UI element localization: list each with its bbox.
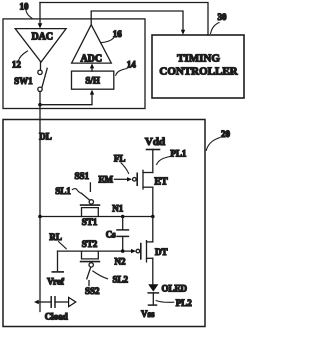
DAC U-DAC triangle [15,29,66,63]
arrowhead into S/H [90,90,94,95]
svg-text:Cs: Cs [106,229,116,239]
svg-text:14: 14 [127,59,137,69]
EM arrow into ET gate [115,178,128,180]
box A analog block [3,19,145,109]
svg-text:EM: EM [98,175,113,185]
wire DL to S/H [40,94,92,105]
switch SW1 [40,62,42,70]
svg-text:Vss: Vss [141,309,155,319]
svg-text:FL: FL [114,154,126,164]
Vss terminal bar [149,304,157,306]
svg-text:ST1: ST1 [82,217,98,227]
svg-text:PL1: PL1 [170,149,187,159]
Vref terminal [57,251,59,272]
leader FL [121,163,129,174]
svg-text:Vref: Vref [47,277,65,287]
svg-text:S/H: S/H [85,76,100,86]
svg-text:TIMING: TIMING [177,53,220,65]
wire DT to OLED [152,258,154,284]
wire top bus to timing controller [40,3,208,36]
wire ADC to timing controller [91,11,183,31]
wire DAC input drop [39,3,41,25]
wire DL vertical [39,92,41,312]
svg-text:10: 10 [20,1,30,11]
diode OLED [148,284,158,291]
wire ET to N1 [152,187,154,216]
svg-text:N1: N1 [112,204,123,214]
capacitor Cs [122,217,124,230]
svg-text:ADC: ADC [80,53,102,64]
node N2 Cs junction [121,249,125,253]
capacitor Cload [34,300,39,304]
svg-text:N2: N2 [115,257,126,267]
leader RL [59,242,67,249]
node N1 rail junction [151,215,155,219]
leader for 14 [116,69,127,76]
svg-text:ST2: ST2 [82,239,98,249]
svg-text:16: 16 [113,29,123,39]
svg-text:OLED: OLED [162,284,188,294]
svg-text:SS2: SS2 [85,286,100,296]
svg-text:CONTROLLER: CONTROLLER [159,65,238,77]
switch SS2 [89,263,93,267]
wire N2 row [58,250,132,252]
svg-text:PL2: PL2 [176,298,193,308]
svg-text:RL: RL [49,232,62,242]
timing controller box 30 [152,35,244,98]
svg-text:DL: DL [39,131,52,141]
leader for 10 [26,11,32,19]
transistor DT [131,249,136,253]
leader PL2 [156,301,174,303]
node junction DL/S-H [38,103,42,107]
svg-text:30: 30 [218,12,228,22]
svg-text:SL2: SL2 [113,275,129,285]
svg-text:ET: ET [154,176,168,187]
leader for 16 [101,38,114,43]
ADC U16 triangle [72,25,112,63]
arrow S/H to ADC [91,67,93,71]
leader PL1 [157,157,170,165]
leader SL1 [72,189,80,193]
transistor ST2 [82,251,99,259]
svg-text:SS1: SS1 [75,171,90,181]
node DL junction [38,215,42,219]
leader for 20 [206,138,220,151]
arrowhead into DAC [38,23,43,28]
wire rail N1 to DT [152,217,154,242]
node N1 Cs junction [121,215,125,219]
svg-text:Cload: Cload [45,311,68,321]
svg-text:20: 20 [221,129,231,139]
svg-text:DAC: DAC [31,32,53,43]
wire N1 row [40,216,153,218]
svg-text:SL1: SL1 [55,186,71,196]
svg-text:SW1: SW1 [14,76,33,86]
svg-text:12: 12 [12,60,22,70]
pixel circuit box 20 [3,120,205,327]
svg-text:DT: DT [155,247,168,257]
arrowhead into timing controller [181,30,185,35]
leader for 30 [211,23,220,34]
switch SS1 [89,200,93,204]
leader for 12 [19,51,28,61]
transistor ST1 [82,208,99,217]
leader SL2 [93,271,108,279]
S/H box U14 [72,71,114,89]
wire Vdd to ET [152,150,154,173]
transistor ET [143,172,153,174]
svg-text:Vdd: Vdd [145,136,165,148]
